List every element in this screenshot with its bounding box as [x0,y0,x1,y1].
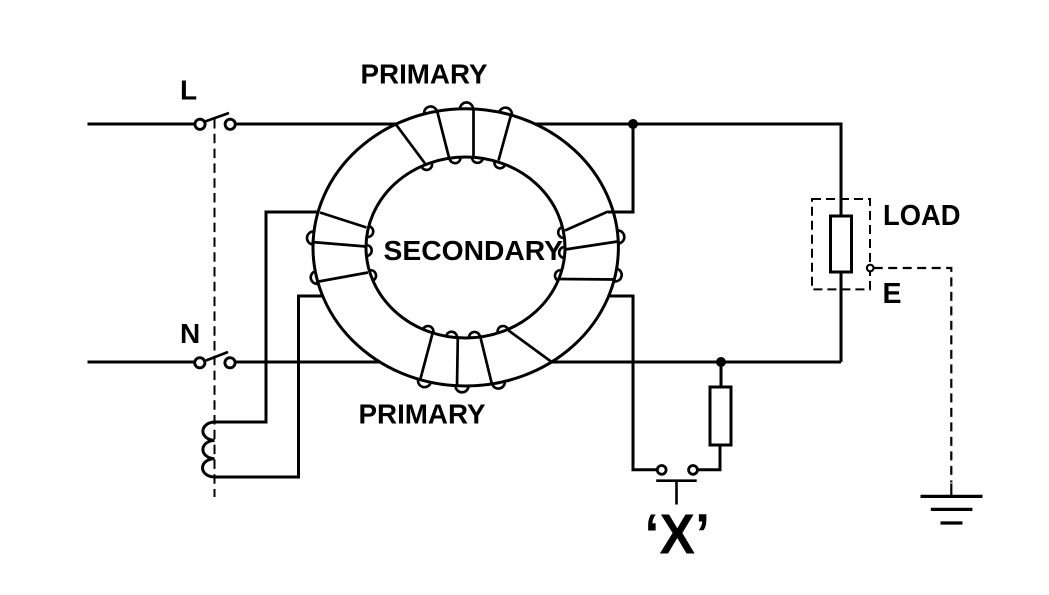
wire L input [88,123,196,126]
primary winding top: loops [421,102,512,169]
test button stem [675,481,678,505]
wire secondary top output: junction down-left to winding [608,124,633,212]
switch L blade [205,113,229,122]
wire LOAD bottom to N [840,272,843,362]
wire secondary left top to coil circuit [215,212,319,422]
test switch contacts [657,466,697,475]
wire toroid bottom right to LOAD bottom [551,361,841,364]
junction node bottom [716,357,726,367]
test resistor [710,387,731,445]
dashed earth wire from E [874,268,952,483]
svg-text:LOAD: LOAD [883,200,961,232]
svg-text:SECONDARY: SECONDARY [384,235,564,266]
switch L contacts [195,119,235,129]
switch N blade [206,352,228,361]
dashed mechanical linkage line [214,119,216,497]
svg-text:PRIMARY: PRIMARY [359,399,486,430]
secondary winding left: loops [307,226,376,284]
svg-text:E: E [883,278,902,310]
secondary winding right: wrap lines [560,212,618,280]
earth wire stub at ground [950,484,952,497]
LOAD dashed box [812,199,870,289]
svg-text:PRIMARY: PRIMARY [361,59,488,90]
wire N switch to toroid [236,361,380,364]
terminal E [867,265,874,272]
wire N input [88,361,195,364]
secondary winding right: loops [555,227,624,281]
relay trip coil [203,422,215,477]
toroid core outer ellipse [313,109,618,386]
ground symbol [921,495,983,498]
wire toroid top right to LOAD [535,124,841,216]
wire test resistor bottom to switch [697,445,720,470]
svg-text:L: L [180,75,197,106]
toroid core inner ellipse [366,157,565,338]
switch N contacts [195,358,235,368]
wire test resistor top [720,362,723,387]
wire secondary left bottom to coil circuit [215,296,323,477]
wire L switch to toroid [236,123,397,126]
primary winding top: wrap lines [396,109,511,164]
primary winding bottom: loops [418,326,508,392]
junction node top [628,119,638,129]
wire secondary right bottom to test switch [609,296,657,470]
primary winding bottom: wrap lines [420,331,551,387]
svg-text:‘X’: ‘X’ [645,503,711,567]
svg-text:N: N [180,318,200,349]
LOAD resistor [831,216,852,272]
secondary winding left: wrap lines [312,213,369,283]
test button bar [656,479,697,482]
